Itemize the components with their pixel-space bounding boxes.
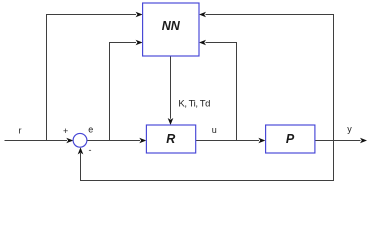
block P (plant) [266, 125, 315, 153]
svg-text:NN: NN [162, 19, 181, 33]
wire u-tap (u to NN input 4) [199, 40, 237, 141]
block R (controller) [146, 125, 195, 153]
svg-text:R: R [166, 132, 175, 146]
node e-tap wire (e to NN input 2) [110, 40, 143, 141]
svg-text:y: y [347, 124, 352, 134]
svg-text:u: u [212, 125, 217, 135]
svg-text:e: e [88, 125, 93, 135]
node r-tap wire (r to NN input 1) [47, 12, 143, 141]
wire y-tap top (y to NN input 3) [199, 12, 334, 141]
svg-text:r: r [19, 125, 22, 135]
wire e (summer to R) [87, 138, 147, 144]
wire feedback (y down, along bottom, up into summer minus) [78, 141, 334, 181]
wire NN to R (K,Ti,Td parameters) [168, 56, 174, 125]
svg-text:K, Ti, Td: K, Ti, Td [178, 99, 210, 110]
svg-text:P: P [286, 132, 295, 146]
summing junction [73, 133, 87, 147]
block NN (neural network) [143, 3, 199, 56]
wire r input [5, 138, 74, 144]
svg-text:+: + [63, 126, 68, 136]
svg-text:-: - [89, 145, 92, 155]
wire u (R to P) [196, 138, 266, 144]
wire y output (P to right) [315, 138, 367, 144]
